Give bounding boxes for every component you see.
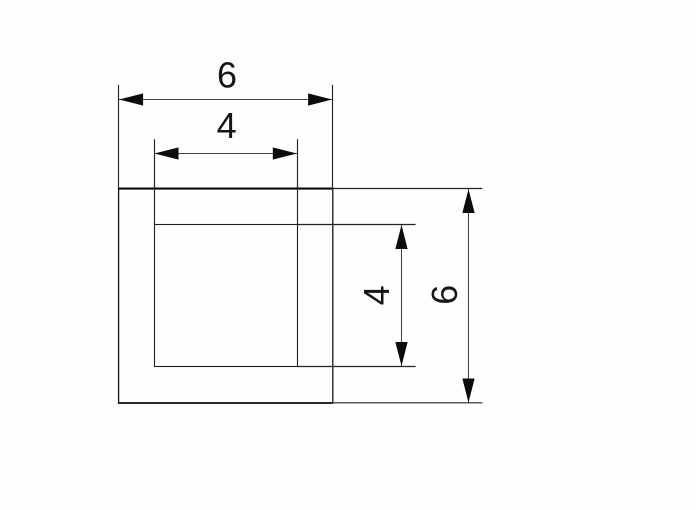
outer square top edge (6x6 profile outline) (118, 188, 333, 190)
inner square (4x4 bore outline) (155, 225, 298, 367)
arrowhead right of dimension 6 top (308, 93, 332, 105)
arrowhead up of dimension 4 right (395, 225, 407, 249)
extension line left of dimension 4 top (154, 139, 156, 225)
arrowhead left of dimension 6 top (119, 93, 143, 105)
extension line left of top dimension 6 (118, 85, 120, 189)
extension line upper of right dimension 6 (333, 188, 483, 190)
extension line right of top dimension 6 (332, 85, 334, 189)
outer square right edge (332, 189, 334, 403)
extension line right of dimension 4 top (297, 139, 299, 225)
arrowhead left of dimension 4 top (155, 147, 179, 159)
dimension line 6 right vertical (468, 189, 470, 403)
svg-text:4: 4 (356, 285, 397, 305)
svg-text:6: 6 (424, 285, 465, 305)
extension line lower of right dimension 6 (333, 402, 483, 404)
svg-text:6: 6 (217, 55, 237, 96)
outer square left edge (118, 189, 120, 403)
arrowhead down of dimension 6 right (462, 379, 474, 403)
extension line lower of right dimension 4 (298, 366, 416, 368)
arrowhead right of dimension 4 top (273, 147, 297, 159)
dimension line 6 top (119, 99, 332, 101)
outer square bottom edge (118, 402, 333, 404)
arrowhead up of dimension 6 right (462, 189, 474, 213)
dimension line 4 right vertical (401, 225, 403, 366)
svg-text:4: 4 (217, 105, 237, 146)
arrowhead down of dimension 4 right (395, 342, 407, 366)
dimension line 4 top (155, 153, 297, 155)
extension line upper of right dimension 4 (298, 224, 416, 226)
